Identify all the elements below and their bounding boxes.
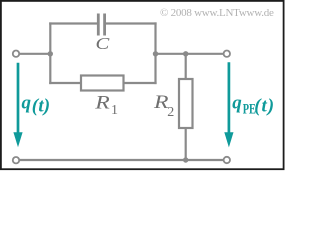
wire: R2 down to bottom rail node D [185, 128, 187, 161]
ground terminal (bottom left) [13, 157, 19, 163]
label C [96, 35, 110, 54]
output terminal (top right) [224, 51, 230, 57]
wire: loop right vertical segment [154, 22, 156, 84]
wire: left input terminal to node A [20, 53, 51, 55]
svg-text:C: C [96, 35, 110, 54]
node B junction dot [153, 51, 158, 56]
svg-text:(t): (t) [32, 96, 51, 117]
capacitor C [97, 14, 106, 36]
wire: node C down to R2 [185, 54, 187, 79]
wire: node B to node C [156, 53, 186, 55]
svg-text:R: R [94, 92, 110, 113]
node D junction dot (bottom rail) [183, 157, 188, 162]
svg-text:© 2008 www.LNTwww.de: © 2008 www.LNTwww.de [160, 7, 274, 19]
wire: loop top segment, right of capacitor [106, 22, 157, 24]
svg-text:(t): (t) [254, 96, 275, 117]
wire: loop top segment, left of capacitor [49, 22, 97, 24]
node A junction dot [48, 51, 53, 56]
label q(t) [22, 93, 51, 117]
ground terminal (bottom right) [224, 157, 230, 163]
arrow qPE(t) output current [224, 62, 233, 147]
wire: loop bottom segment, right of R1 [124, 82, 157, 84]
copyright notice [160, 7, 274, 19]
label R2 [153, 91, 174, 120]
input terminal (top left) [13, 51, 19, 57]
wire: loop left vertical segment [49, 22, 51, 84]
resistor R1 [81, 76, 124, 91]
svg-text:q: q [232, 93, 242, 114]
label R1 [94, 92, 118, 118]
wire: loop bottom segment, left of R1 [49, 82, 81, 84]
label qPE(t) [232, 93, 275, 117]
wire: bottom rail [20, 159, 224, 161]
node C junction dot (top of R2 branch) [183, 51, 188, 56]
arrow q(t) input current [13, 63, 22, 148]
wire: node C to right output terminal [186, 53, 223, 55]
svg-text:2: 2 [167, 105, 174, 120]
svg-text:R: R [153, 91, 169, 112]
svg-text:q: q [22, 93, 32, 114]
svg-text:1: 1 [111, 103, 118, 118]
resistor R2 [179, 79, 193, 128]
